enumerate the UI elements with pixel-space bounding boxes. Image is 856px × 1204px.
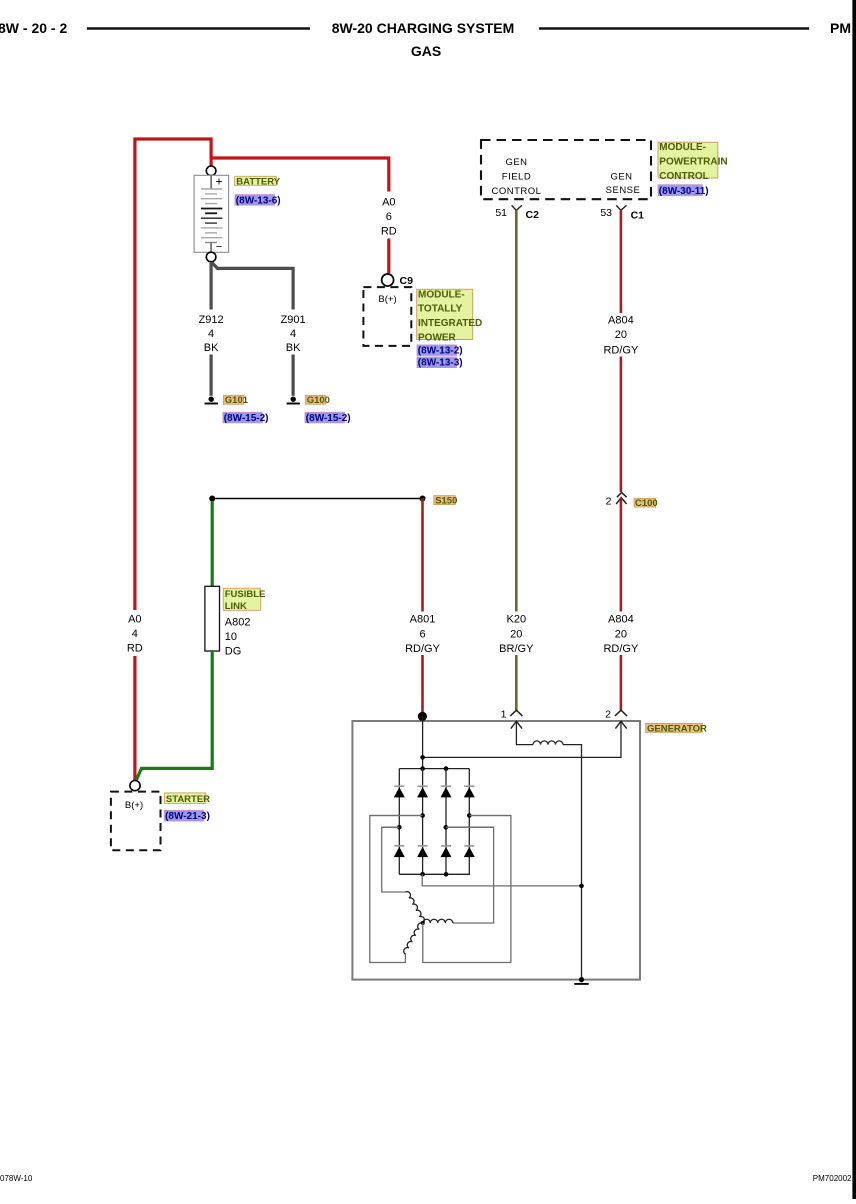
label A804 20 RD/GY lower bbox=[603, 614, 639, 656]
label (8W-13-2) bbox=[417, 345, 463, 357]
svg-text:1: 1 bbox=[501, 709, 507, 721]
svg-text:8W-20 CHARGING SYSTEM: 8W-20 CHARGING SYSTEM bbox=[332, 20, 515, 36]
wire field lead from pin 1 to rotor coil bbox=[516, 721, 533, 744]
stator coil A bbox=[405, 892, 424, 923]
svg-text:4: 4 bbox=[132, 628, 138, 640]
svg-text:(8W-30-11): (8W-30-11) bbox=[659, 186, 709, 197]
diode D7 bottom bbox=[441, 846, 452, 857]
wire Z912 4 BK upper bbox=[210, 262, 213, 310]
svg-text:20: 20 bbox=[615, 628, 627, 640]
wire A0 4 RD left feed upper segment bbox=[135, 139, 211, 780]
phase rail 1 right segment bbox=[469, 815, 511, 817]
svg-text:RD/GY: RD/GY bbox=[405, 643, 441, 655]
node phase2b bbox=[444, 825, 449, 830]
svg-text:C100: C100 bbox=[635, 498, 658, 509]
starter dashed box bbox=[111, 792, 161, 851]
wire Z901 lower bbox=[292, 355, 295, 396]
label (8W-15-2) right bbox=[305, 412, 351, 424]
label C100 bbox=[634, 498, 658, 509]
label (8W-21-3) bbox=[164, 810, 210, 822]
stator phase A loop bbox=[382, 827, 406, 892]
label A0 6 RD bbox=[381, 196, 397, 237]
label BATTERY bbox=[235, 176, 281, 187]
svg-text:A804: A804 bbox=[608, 314, 634, 326]
stator phase B loop bbox=[446, 827, 494, 923]
node sense junction bbox=[420, 755, 425, 760]
stator coil C bbox=[404, 923, 423, 954]
diode D1 top bbox=[394, 786, 405, 797]
svg-text:6: 6 bbox=[419, 628, 425, 640]
starter B(+) terminal bbox=[130, 781, 140, 791]
diode D3 top bbox=[441, 786, 452, 797]
wire A804 20 RD/GY lower bbox=[620, 498, 623, 612]
diode column 3 wire bbox=[445, 769, 447, 875]
svg-text:LINK: LINK bbox=[225, 601, 247, 612]
stator coil B bbox=[423, 919, 453, 923]
label (8W-15-2) left bbox=[223, 412, 269, 424]
terminal C9 bbox=[382, 274, 394, 286]
module PCM dashed box bbox=[481, 140, 651, 199]
node stator Y center bbox=[421, 921, 425, 925]
svg-text:B(+): B(+) bbox=[378, 294, 396, 305]
svg-text:A0: A0 bbox=[128, 614, 141, 626]
svg-text:Z912: Z912 bbox=[199, 314, 224, 326]
svg-text:STARTER: STARTER bbox=[166, 794, 210, 805]
svg-text:078W-10: 078W-10 bbox=[0, 1174, 33, 1183]
battery negative terminal bbox=[206, 252, 216, 262]
svg-text:GEN: GEN bbox=[505, 157, 527, 168]
svg-text:POWERTRAIN: POWERTRAIN bbox=[659, 157, 727, 168]
svg-text:FUSIBLE: FUSIBLE bbox=[225, 589, 266, 600]
svg-text:C9: C9 bbox=[400, 275, 414, 287]
label GENERATOR bbox=[646, 723, 707, 734]
label Z901 4 BK bbox=[281, 314, 306, 354]
svg-text:SENSE: SENSE bbox=[606, 185, 641, 196]
svg-text:BR/GY: BR/GY bbox=[499, 643, 534, 655]
ground symbol generator bbox=[574, 983, 588, 985]
svg-text:4: 4 bbox=[290, 328, 296, 340]
phase rail 2 right segment bbox=[446, 826, 494, 828]
svg-text:PM: PM bbox=[830, 20, 851, 36]
svg-text:Z901: Z901 bbox=[281, 314, 306, 326]
svg-text:(8W-15-2): (8W-15-2) bbox=[306, 413, 351, 424]
node generator case ground bbox=[579, 977, 584, 982]
battery positive terminal bbox=[206, 166, 216, 176]
label K20 20 BR/GY bbox=[499, 614, 534, 656]
fusible link body bbox=[205, 586, 220, 651]
svg-text:(8W-13-3): (8W-13-3) bbox=[418, 358, 463, 369]
wire A804 mid bbox=[620, 357, 623, 493]
svg-text:S150: S150 bbox=[435, 496, 457, 507]
connector C1 pin 53 bbox=[600, 205, 644, 221]
label (8W-30-11) bbox=[658, 185, 709, 197]
svg-text:G100: G100 bbox=[307, 395, 330, 406]
wire rotor coil to ground rail bbox=[563, 745, 582, 980]
ground G101 bbox=[205, 397, 218, 404]
diode column 2 wire bbox=[422, 769, 424, 875]
svg-text:DG: DG bbox=[225, 646, 242, 658]
label A804 20 RD/GY upper bbox=[603, 314, 639, 356]
svg-text:2: 2 bbox=[605, 709, 611, 721]
svg-text:PM702002: PM702002 bbox=[813, 1174, 852, 1183]
svg-text:BK: BK bbox=[286, 342, 301, 354]
rectifier anode rail bbox=[399, 873, 470, 875]
svg-text:A0: A0 bbox=[382, 196, 395, 208]
svg-text:(8W-13-2): (8W-13-2) bbox=[418, 346, 463, 357]
svg-text:BK: BK bbox=[204, 342, 219, 354]
svg-text:A804: A804 bbox=[608, 614, 634, 626]
label A801 6 RD/GY bbox=[405, 614, 441, 656]
stator phase C loop bbox=[370, 816, 423, 963]
module TIPM dashed box bbox=[363, 287, 411, 346]
node rail dot A bbox=[420, 766, 425, 771]
svg-text:20: 20 bbox=[615, 329, 627, 341]
phase rail 2 left segment bbox=[382, 826, 400, 828]
label (8W-13-3) bbox=[417, 357, 463, 369]
wire A0 4 RD text gap mask bbox=[125, 610, 145, 656]
node S150 bbox=[420, 496, 426, 502]
diode column 1 wire bbox=[398, 769, 400, 875]
svg-text:RD: RD bbox=[381, 226, 397, 238]
connector C100 bbox=[606, 492, 627, 507]
svg-text:8W - 20 - 2: 8W - 20 - 2 bbox=[0, 20, 67, 36]
svg-text:+: + bbox=[216, 175, 223, 189]
label S150 bbox=[434, 496, 458, 507]
connector C2 pin 51 bbox=[495, 205, 539, 221]
ground G100 bbox=[287, 397, 300, 404]
svg-text:53: 53 bbox=[600, 207, 612, 219]
wire K20 lower bbox=[515, 655, 518, 710]
svg-text:(8W-21-3): (8W-21-3) bbox=[165, 811, 210, 822]
svg-text:GAS: GAS bbox=[411, 43, 441, 59]
label A802 10 DG bbox=[225, 616, 251, 657]
label MODULE-POWERTRAIN CONTROL bbox=[658, 142, 728, 182]
svg-text:MODULE-: MODULE- bbox=[418, 289, 465, 300]
rotor field coil bbox=[533, 741, 563, 745]
generator box bbox=[352, 721, 640, 980]
diode D5 bottom bbox=[394, 846, 405, 857]
diode D2 top bbox=[417, 786, 428, 797]
svg-text:GEN: GEN bbox=[610, 172, 632, 183]
svg-text:RD/GY: RD/GY bbox=[603, 643, 639, 655]
node S150 left junction bbox=[209, 496, 215, 502]
wire A804 to generator pin 2 bbox=[620, 655, 623, 710]
wire pin 2 sense lead to B+ node bbox=[423, 721, 621, 757]
svg-text:B(+): B(+) bbox=[125, 800, 143, 811]
wire stator center tap bbox=[423, 816, 511, 963]
label G101 bbox=[223, 395, 248, 406]
svg-text:G101: G101 bbox=[225, 395, 249, 406]
svg-text:20: 20 bbox=[510, 628, 522, 640]
node field ground junction bbox=[579, 884, 584, 889]
wire K20 text gap mask bbox=[505, 612, 528, 655]
svg-text:(8W-13-6): (8W-13-6) bbox=[236, 195, 281, 206]
svg-text:(8W-15-2): (8W-15-2) bbox=[224, 413, 269, 424]
label MODULE-TOTALLY INTEGRATED POWER bbox=[417, 289, 483, 343]
diode D4 top bbox=[464, 786, 475, 797]
svg-text:GENERATOR: GENERATOR bbox=[647, 723, 707, 734]
wire A801 lower to generator stud bbox=[421, 655, 424, 716]
wire A0 6 RD lower segment bbox=[387, 239, 390, 274]
svg-text:INTEGRATED: INTEGRATED bbox=[418, 318, 482, 329]
wire K20 20 BR/GY upper bbox=[515, 210, 518, 611]
diode D8 bottom bbox=[464, 846, 475, 857]
diode column 4 wire bbox=[468, 769, 470, 875]
splice S150 wire bbox=[212, 498, 422, 500]
wire B+ vertical into rectifier bbox=[422, 716, 424, 768]
svg-text:A802: A802 bbox=[225, 616, 251, 628]
node phase2 bbox=[397, 825, 402, 830]
label G100 bbox=[305, 395, 330, 406]
node phase1 bbox=[420, 813, 425, 818]
svg-text:C1: C1 bbox=[631, 210, 645, 222]
svg-text:C2: C2 bbox=[526, 209, 540, 221]
svg-text:BATTERY: BATTERY bbox=[236, 176, 280, 187]
page footer bbox=[0, 1174, 852, 1183]
wire Z912 lower bbox=[210, 355, 213, 396]
svg-text:CONTROL: CONTROL bbox=[492, 186, 542, 197]
label (8W-13-6) bbox=[235, 195, 281, 207]
label A0 4 RD bbox=[127, 614, 143, 655]
node rail dot B bbox=[444, 766, 449, 771]
connector pin 1 male arrow bbox=[511, 721, 522, 728]
rectifier cathode rail bbox=[399, 768, 469, 770]
label Z912 4 BK bbox=[199, 314, 224, 354]
node anode rail A bbox=[420, 872, 425, 877]
svg-text:MODULE-: MODULE- bbox=[659, 142, 706, 153]
label FUSIBLE LINK bbox=[223, 588, 265, 612]
wire rectifier ground link bbox=[422, 874, 581, 886]
wire A801 6 RD/GY upper from S150 bbox=[421, 499, 424, 612]
svg-text:A801: A801 bbox=[410, 614, 436, 626]
wire Z901 branch bbox=[212, 263, 293, 310]
node phase1b bbox=[467, 813, 472, 818]
wire DG lower from fusible link to starter bbox=[136, 651, 212, 780]
svg-text:POWER: POWER bbox=[418, 333, 457, 344]
svg-text:TOTALLY: TOTALLY bbox=[418, 304, 463, 315]
svg-text:4: 4 bbox=[208, 328, 214, 340]
wire DG upper to fusible link bbox=[211, 501, 214, 586]
svg-text:2: 2 bbox=[606, 496, 612, 508]
svg-text:RD/GY: RD/GY bbox=[603, 344, 639, 356]
node B+ stud on generator bbox=[418, 712, 427, 721]
node anode rail B bbox=[444, 872, 449, 877]
label STARTER bbox=[164, 793, 210, 805]
svg-text:FIELD: FIELD bbox=[502, 172, 531, 183]
svg-text:6: 6 bbox=[386, 211, 392, 223]
connector pin 2 female half bbox=[615, 710, 627, 716]
svg-text:CONTROL: CONTROL bbox=[659, 171, 708, 182]
wire A804 20 RD/GY upper bbox=[620, 210, 623, 313]
svg-text:K20: K20 bbox=[507, 614, 527, 626]
svg-text:10: 10 bbox=[225, 631, 237, 643]
connector pin 1 female half bbox=[510, 710, 522, 716]
connector pin 2 male arrow bbox=[615, 721, 626, 728]
svg-text:−: − bbox=[216, 241, 222, 253]
diode D6 bottom bbox=[417, 846, 428, 857]
wire A0 6 RD branch to C9 bbox=[211, 158, 389, 192]
svg-text:51: 51 bbox=[495, 207, 507, 219]
phase rail 1 left segment bbox=[370, 815, 423, 817]
svg-text:RD: RD bbox=[127, 643, 143, 655]
battery B1 bbox=[194, 175, 229, 254]
